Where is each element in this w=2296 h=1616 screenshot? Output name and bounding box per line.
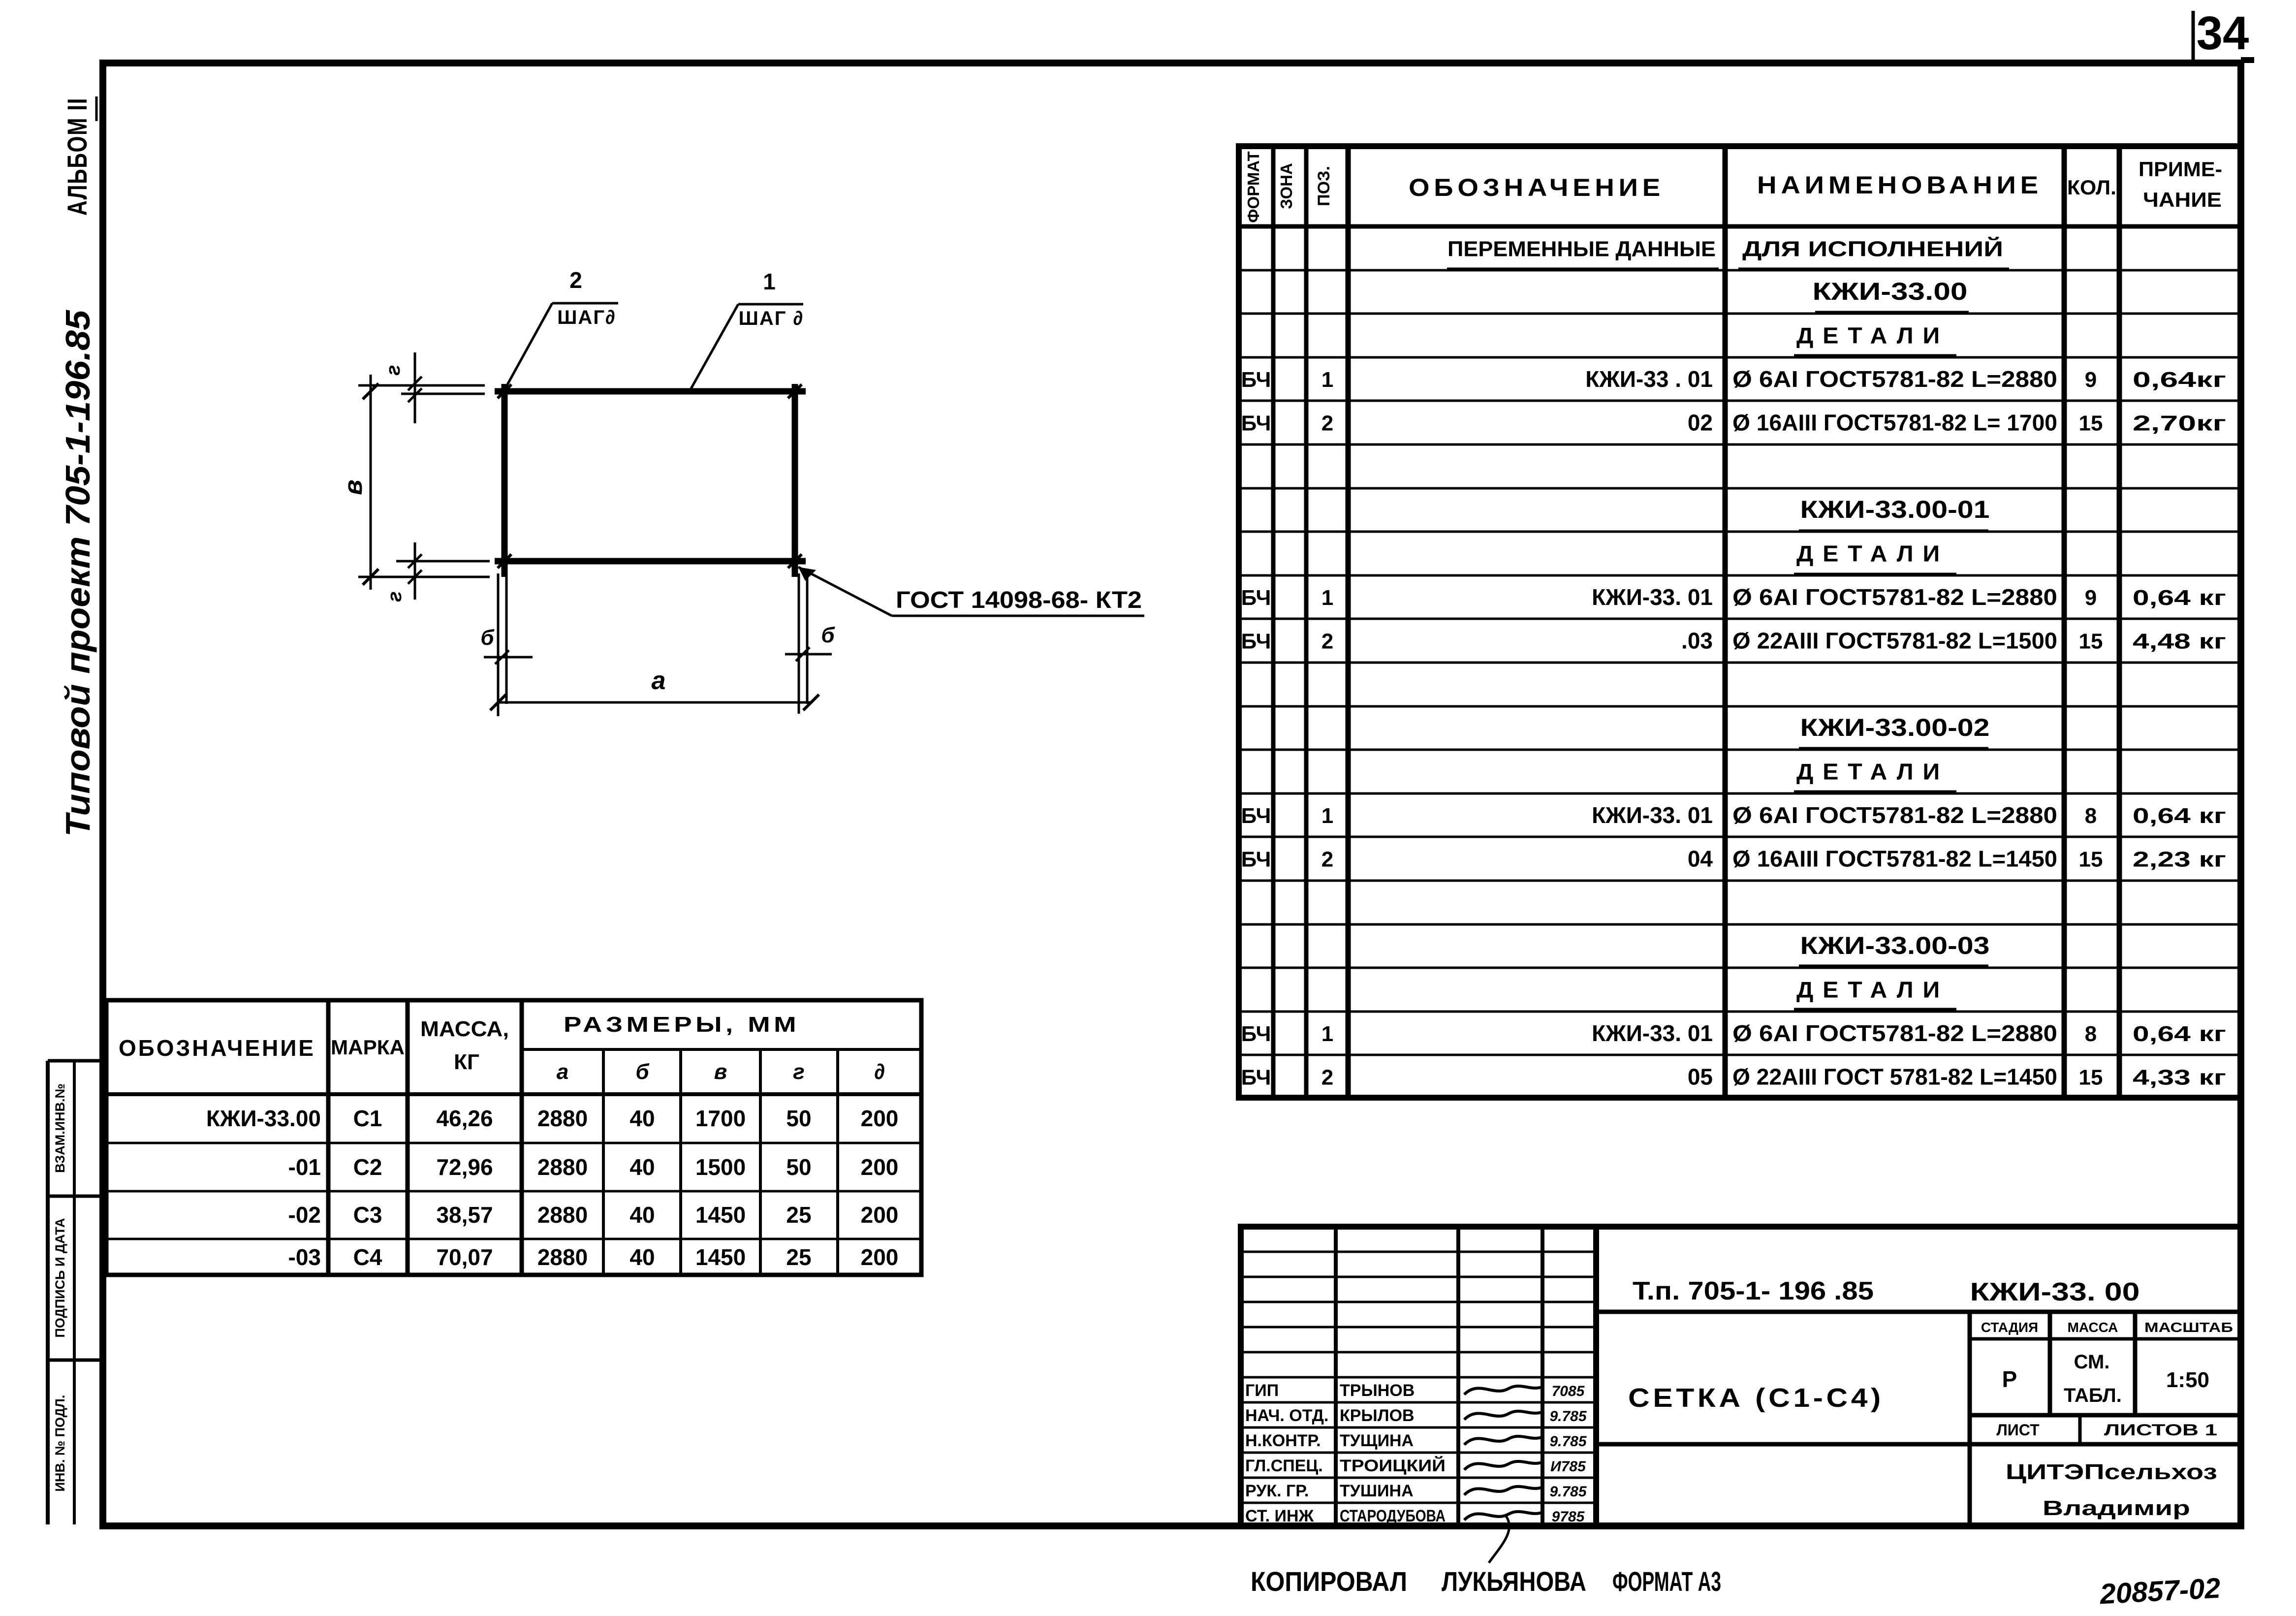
- svg-text:ПЕРЕМЕННЫЕ ДАННЫЕ: ПЕРЕМЕННЫЕ ДАННЫЕ: [1447, 237, 1716, 261]
- mesh bar right: [792, 384, 798, 577]
- svg-text:2,23 кг: 2,23 кг: [2133, 848, 2226, 872]
- svg-text:С1: С1: [353, 1106, 382, 1131]
- svg-text:СТАРОДУБОВА: СТАРОДУБОВА: [1340, 1507, 1446, 1525]
- svg-text:РАЗМЕРЫ, ММ: РАЗМЕРЫ, ММ: [564, 1013, 800, 1037]
- svg-text:ЛУКЬЯНОВА: ЛУКЬЯНОВА: [1442, 1566, 1586, 1597]
- mesh bar top (pos 1): [495, 388, 806, 395]
- svg-text:200: 200: [861, 1106, 899, 1131]
- svg-text:БЧ: БЧ: [1241, 848, 1271, 872]
- svg-text:8: 8: [2085, 804, 2097, 828]
- svg-text:05: 05: [1688, 1064, 1713, 1090]
- svg-text:б: б: [635, 1060, 650, 1084]
- svg-text:ТУШИНА: ТУШИНА: [1340, 1482, 1414, 1500]
- svg-text:КЖИ-33.00: КЖИ-33.00: [206, 1106, 321, 1131]
- svg-text:Владимир: Владимир: [2043, 1496, 2190, 1520]
- svg-text:КЖИ-33 . 01: КЖИ-33 . 01: [1585, 366, 1713, 392]
- svg-text:25: 25: [786, 1202, 811, 1228]
- leader pos 1 shag d: [690, 304, 803, 390]
- svg-text:г: г: [384, 591, 406, 602]
- svg-text:ЛИСТОВ 1: ЛИСТОВ 1: [2104, 1421, 2217, 1439]
- svg-text:в: в: [339, 479, 368, 495]
- svg-text:40: 40: [629, 1106, 655, 1131]
- svg-text:ГЛ.СПЕЦ.: ГЛ.СПЕЦ.: [1245, 1457, 1323, 1475]
- mesh bar bottom: [495, 558, 806, 565]
- g dim tick line bottom: [414, 542, 416, 600]
- svg-text:ГОСТ 14098-68- КТ2: ГОСТ 14098-68- КТ2: [896, 587, 1142, 613]
- svg-text:КОПИРОВАЛ: КОПИРОВАЛ: [1251, 1566, 1407, 1597]
- svg-text:ЗОНА: ЗОНА: [1277, 163, 1295, 209]
- svg-text:БЧ: БЧ: [1241, 586, 1271, 610]
- svg-text:38,57: 38,57: [436, 1202, 493, 1228]
- svg-text:МАССА: МАССА: [2068, 1320, 2118, 1335]
- svg-text:-03: -03: [288, 1244, 321, 1270]
- svg-text:СТ. ИНЖ: СТ. ИНЖ: [1245, 1507, 1314, 1525]
- svg-text:г: г: [382, 365, 404, 375]
- svg-text:ФОРМАТ А3: ФОРМАТ А3: [1612, 1566, 1721, 1597]
- svg-text:40: 40: [629, 1244, 655, 1270]
- svg-text:∂: ∂: [874, 1060, 885, 1084]
- svg-text:Р: Р: [2002, 1366, 2017, 1392]
- svg-text:б: б: [480, 626, 495, 650]
- svg-text:КЖИ-33.00-02: КЖИ-33.00-02: [1800, 714, 1990, 741]
- g dim tick line top: [414, 352, 416, 423]
- svg-text:КЖИ-33. 01: КЖИ-33. 01: [1592, 584, 1713, 610]
- svg-text:ДЛЯ ИСПОЛНЕНИЙ: ДЛЯ ИСПОЛНЕНИЙ: [1742, 236, 2003, 261]
- svg-text:КЖИ-33.00-01: КЖИ-33.00-01: [1800, 496, 1990, 523]
- svg-text:И785: И785: [1550, 1458, 1586, 1475]
- svg-text:25: 25: [786, 1244, 811, 1270]
- svg-text:ДЕТАЛИ: ДЕТАЛИ: [1796, 759, 1949, 785]
- svg-text:ИНВ. № ПОДЛ.: ИНВ. № ПОДЛ.: [53, 1395, 67, 1492]
- top-left extension lines (g offset): [358, 384, 485, 387]
- svg-text:15: 15: [2079, 630, 2103, 654]
- svg-text:Ø 16АIII ГОСТ5781-82 L=1450: Ø 16АIII ГОСТ5781-82 L=1450: [1732, 846, 2057, 872]
- svg-text:МАРКА: МАРКА: [331, 1036, 405, 1059]
- svg-text:Ø 6АI ГОСТ5781-82 L=2880: Ø 6АI ГОСТ5781-82 L=2880: [1732, 366, 2057, 392]
- bottom-left extension lines (g offset): [396, 560, 490, 563]
- svg-text:4,48 кг: 4,48 кг: [2133, 630, 2226, 654]
- svg-text:1: 1: [1321, 804, 1333, 828]
- svg-text:0,64 кг: 0,64 кг: [2133, 586, 2226, 610]
- svg-text:КЖИ-33.00: КЖИ-33.00: [1813, 278, 1968, 305]
- svg-text:-02: -02: [288, 1202, 321, 1228]
- leader GOST 14098-68-KT2: [798, 567, 1144, 616]
- svg-text:9: 9: [2085, 586, 2097, 610]
- svg-text:БЧ: БЧ: [1241, 630, 1271, 654]
- svg-text:2880: 2880: [537, 1244, 588, 1270]
- svg-text:СТАДИЯ: СТАДИЯ: [1981, 1320, 2038, 1335]
- svg-text:КОЛ.: КОЛ.: [2067, 176, 2116, 199]
- svg-text:-01: -01: [288, 1154, 321, 1180]
- spec table grid: [1239, 146, 2241, 1098]
- svg-text:ЛИСТ: ЛИСТ: [1996, 1421, 2040, 1439]
- svg-text:40: 40: [629, 1202, 655, 1228]
- svg-text:1: 1: [1321, 1022, 1333, 1046]
- svg-text:46,26: 46,26: [436, 1106, 493, 1131]
- svg-text:ПРИМЕ-: ПРИМЕ-: [2139, 158, 2222, 181]
- overbar on II: [95, 96, 98, 121]
- svg-text:КЖИ-33.00-03: КЖИ-33.00-03: [1800, 932, 1990, 959]
- svg-text:2: 2: [1321, 848, 1333, 872]
- svg-text:ПОЗ.: ПОЗ.: [1315, 166, 1333, 206]
- svg-text:9.785: 9.785: [1549, 1433, 1587, 1450]
- svg-text:9.785: 9.785: [1549, 1408, 1587, 1425]
- svg-text:Ø 22АIII ГОСТ 5781-82 L=1450: Ø 22АIII ГОСТ 5781-82 L=1450: [1732, 1064, 2057, 1090]
- svg-text:БЧ: БЧ: [1241, 368, 1271, 392]
- svg-text:ОБОЗНАЧЕНИЕ: ОБОЗНАЧЕНИЕ: [119, 1035, 315, 1061]
- svg-text:ТУЩИНА: ТУЩИНА: [1340, 1431, 1414, 1450]
- svg-text:1500: 1500: [695, 1154, 746, 1180]
- svg-text:2880: 2880: [537, 1202, 588, 1228]
- svg-text:РУК. ГР.: РУК. ГР.: [1245, 1482, 1309, 1500]
- size table grid: [106, 1000, 921, 1275]
- svg-text:Т.п. 705-1- 196 .85: Т.п. 705-1- 196 .85: [1633, 1277, 1874, 1305]
- svg-text:04: 04: [1688, 846, 1713, 872]
- b (edge offset) double lines bottom left: [497, 573, 500, 716]
- svg-text:ДЕТАЛИ: ДЕТАЛИ: [1796, 323, 1949, 349]
- mesh bar left (pos 2): [502, 384, 508, 577]
- svg-text:1450: 1450: [695, 1244, 746, 1270]
- svg-text:.03: .03: [1681, 628, 1713, 654]
- svg-text:40: 40: [629, 1154, 655, 1180]
- svg-text:0,64 кг: 0,64 кг: [2133, 1022, 2226, 1046]
- svg-text:2880: 2880: [537, 1154, 588, 1180]
- svg-text:200: 200: [861, 1202, 899, 1228]
- svg-text:КГ: КГ: [454, 1050, 479, 1074]
- svg-text:9785: 9785: [1552, 1509, 1585, 1525]
- dimension v: vertical dimension line: [370, 375, 372, 590]
- svg-text:Ø 16АIII ГОСТ5781-82 L= 1700: Ø 16АIII ГОСТ5781-82 L= 1700: [1732, 410, 2057, 436]
- svg-text:ШАГ∂: ШАГ∂: [557, 307, 616, 328]
- b (edge offset) double lines bottom right: [798, 573, 800, 714]
- svg-text:МАСШТАБ: МАСШТАБ: [2144, 1320, 2233, 1335]
- svg-text:Ø 6АI ГОСТ5781-82 L=2880: Ø 6АI ГОСТ5781-82 L=2880: [1732, 802, 2057, 828]
- svg-text:70,07: 70,07: [436, 1244, 493, 1270]
- svg-text:ПОДПИСЬ И ДАТА: ПОДПИСЬ И ДАТА: [53, 1218, 67, 1337]
- svg-text:50: 50: [786, 1106, 811, 1131]
- leader pos 2 shag d: [504, 303, 618, 390]
- svg-text:Н.КОНТР.: Н.КОНТР.: [1245, 1431, 1321, 1450]
- svg-text:9: 9: [2085, 368, 2097, 392]
- svg-text:ДЕТАЛИ: ДЕТАЛИ: [1796, 541, 1949, 567]
- svg-text:2,70кг: 2,70кг: [2133, 412, 2226, 436]
- svg-text:БЧ: БЧ: [1241, 1022, 1271, 1046]
- svg-text:1:50: 1:50: [2166, 1368, 2209, 1392]
- svg-text:200: 200: [861, 1154, 899, 1180]
- svg-text:С3: С3: [353, 1202, 382, 1228]
- svg-text:0,64кг: 0,64кг: [2133, 368, 2226, 392]
- svg-text:ВЗАМ.ИНВ.№: ВЗАМ.ИНВ.№: [53, 1083, 67, 1173]
- svg-text:72,96: 72,96: [436, 1154, 493, 1180]
- svg-text:ГИП: ГИП: [1245, 1381, 1279, 1400]
- svg-text:ФОРМАТ: ФОРМАТ: [1244, 151, 1262, 222]
- svg-text:1: 1: [1321, 586, 1333, 610]
- svg-text:ТАБЛ.: ТАБЛ.: [2064, 1385, 2122, 1406]
- svg-text:20857-02: 20857-02: [2099, 1572, 2221, 1611]
- svg-text:БЧ: БЧ: [1241, 1066, 1271, 1090]
- svg-text:АЛЬБОМ II: АЛЬБОМ II: [62, 97, 93, 216]
- svg-text:ЦИТЭПсельхоз: ЦИТЭПсельхоз: [2006, 1460, 2217, 1484]
- svg-text:2: 2: [1321, 412, 1333, 436]
- svg-text:а: а: [557, 1060, 568, 1084]
- corner ticks: [498, 384, 511, 398]
- svg-text:ТРЫНОВ: ТРЫНОВ: [1340, 1381, 1415, 1400]
- svg-text:ЧАНИЕ: ЧАНИЕ: [2143, 188, 2222, 211]
- dimension a: [498, 701, 811, 704]
- svg-text:ДЕТАЛИ: ДЕТАЛИ: [1796, 977, 1949, 1003]
- svg-text:г: г: [793, 1060, 804, 1084]
- svg-text:МАССА,: МАССА,: [420, 1017, 509, 1041]
- svg-text:8: 8: [2085, 1022, 2097, 1046]
- svg-text:КЖИ-33. 00: КЖИ-33. 00: [1970, 1278, 2140, 1306]
- svg-text:Ø 6АI ГОСТ5781-82 L=2880: Ø 6АI ГОСТ5781-82 L=2880: [1732, 1020, 2057, 1046]
- svg-text:15: 15: [2079, 848, 2103, 872]
- svg-text:а: а: [652, 666, 666, 695]
- svg-text:СМ.: СМ.: [2074, 1351, 2110, 1373]
- svg-text:7085: 7085: [1552, 1383, 1585, 1399]
- svg-text:50: 50: [786, 1154, 811, 1180]
- svg-text:4,33 кг: 4,33 кг: [2133, 1066, 2226, 1090]
- svg-text:9.785: 9.785: [1549, 1484, 1587, 1500]
- svg-text:34: 34: [2197, 7, 2249, 60]
- svg-text:2: 2: [1321, 1066, 1333, 1090]
- signature squiggles: [1464, 1386, 1543, 1563]
- svg-text:СЕТКА (С1-С4): СЕТКА (С1-С4): [1628, 1383, 1884, 1413]
- svg-text:2: 2: [569, 267, 582, 293]
- svg-text:С4: С4: [353, 1244, 382, 1270]
- svg-text:ТРОИЦКИЙ: ТРОИЦКИЙ: [1340, 1456, 1446, 1475]
- svg-text:в: в: [714, 1060, 727, 1084]
- svg-text:200: 200: [861, 1244, 899, 1270]
- left stamp strip box: [48, 1061, 103, 1524]
- svg-text:15: 15: [2079, 412, 2103, 436]
- svg-text:НАИМЕНОВАНИЕ: НАИМЕНОВАНИЕ: [1757, 171, 2043, 199]
- svg-text:КЖИ-33. 01: КЖИ-33. 01: [1592, 1020, 1713, 1046]
- svg-text:02: 02: [1688, 410, 1713, 436]
- svg-text:ШАГ ∂: ШАГ ∂: [739, 308, 804, 329]
- svg-text:2880: 2880: [537, 1106, 588, 1131]
- svg-text:2: 2: [1321, 630, 1333, 654]
- svg-text:0,64 кг: 0,64 кг: [2133, 804, 2226, 828]
- svg-text:КЖИ-33. 01: КЖИ-33. 01: [1592, 802, 1713, 828]
- svg-text:1: 1: [763, 269, 776, 294]
- svg-text:БЧ: БЧ: [1241, 804, 1271, 828]
- svg-text:ОБОЗНАЧЕНИЕ: ОБОЗНАЧЕНИЕ: [1409, 174, 1665, 201]
- svg-text:БЧ: БЧ: [1241, 412, 1271, 436]
- svg-text:Типовой проект 705-1-196.85: Типовой проект 705-1-196.85: [59, 310, 97, 837]
- svg-text:НАЧ. ОТД.: НАЧ. ОТД.: [1245, 1406, 1328, 1425]
- top border overhang: [2241, 57, 2254, 63]
- svg-text:КРЫЛОВ: КРЫЛОВ: [1340, 1406, 1415, 1425]
- page number tick line: [2192, 11, 2195, 60]
- svg-text:Ø 22АIII ГОСТ5781-82 L=1500: Ø 22АIII ГОСТ5781-82 L=1500: [1732, 628, 2057, 654]
- svg-text:15: 15: [2079, 1066, 2103, 1090]
- svg-text:С2: С2: [353, 1154, 382, 1180]
- svg-text:1450: 1450: [695, 1202, 746, 1228]
- title block grid: [1241, 1227, 2241, 1526]
- svg-text:Ø 6АI ГОСТ5781-82 L=2880: Ø 6АI ГОСТ5781-82 L=2880: [1732, 584, 2057, 610]
- svg-text:1: 1: [1321, 368, 1333, 392]
- svg-text:1700: 1700: [695, 1106, 746, 1131]
- svg-text:б: б: [821, 623, 835, 647]
- spec table row lines: [1239, 270, 2241, 1055]
